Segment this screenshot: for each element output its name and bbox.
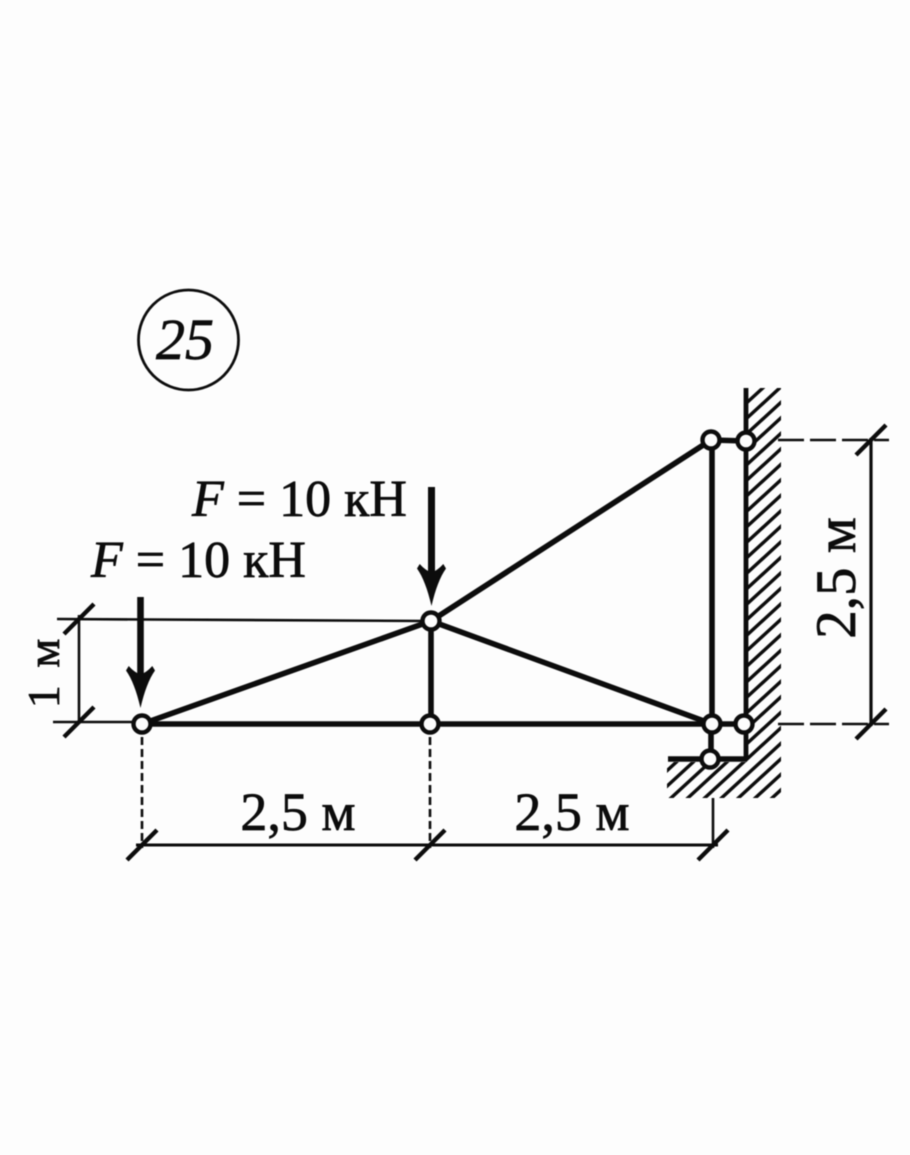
svg-text:F = 10 кН: F = 10 кН	[90, 532, 306, 589]
svg-text:2,5 м: 2,5 м	[514, 782, 629, 842]
svg-text:25: 25	[156, 307, 214, 372]
svg-text:2,5 м: 2,5 м	[240, 782, 355, 842]
svg-text:2,5 м: 2,5 м	[805, 517, 868, 639]
svg-text:F = 10 кН: F = 10 кН	[191, 471, 407, 528]
svg-text:1 м: 1 м	[18, 636, 69, 709]
